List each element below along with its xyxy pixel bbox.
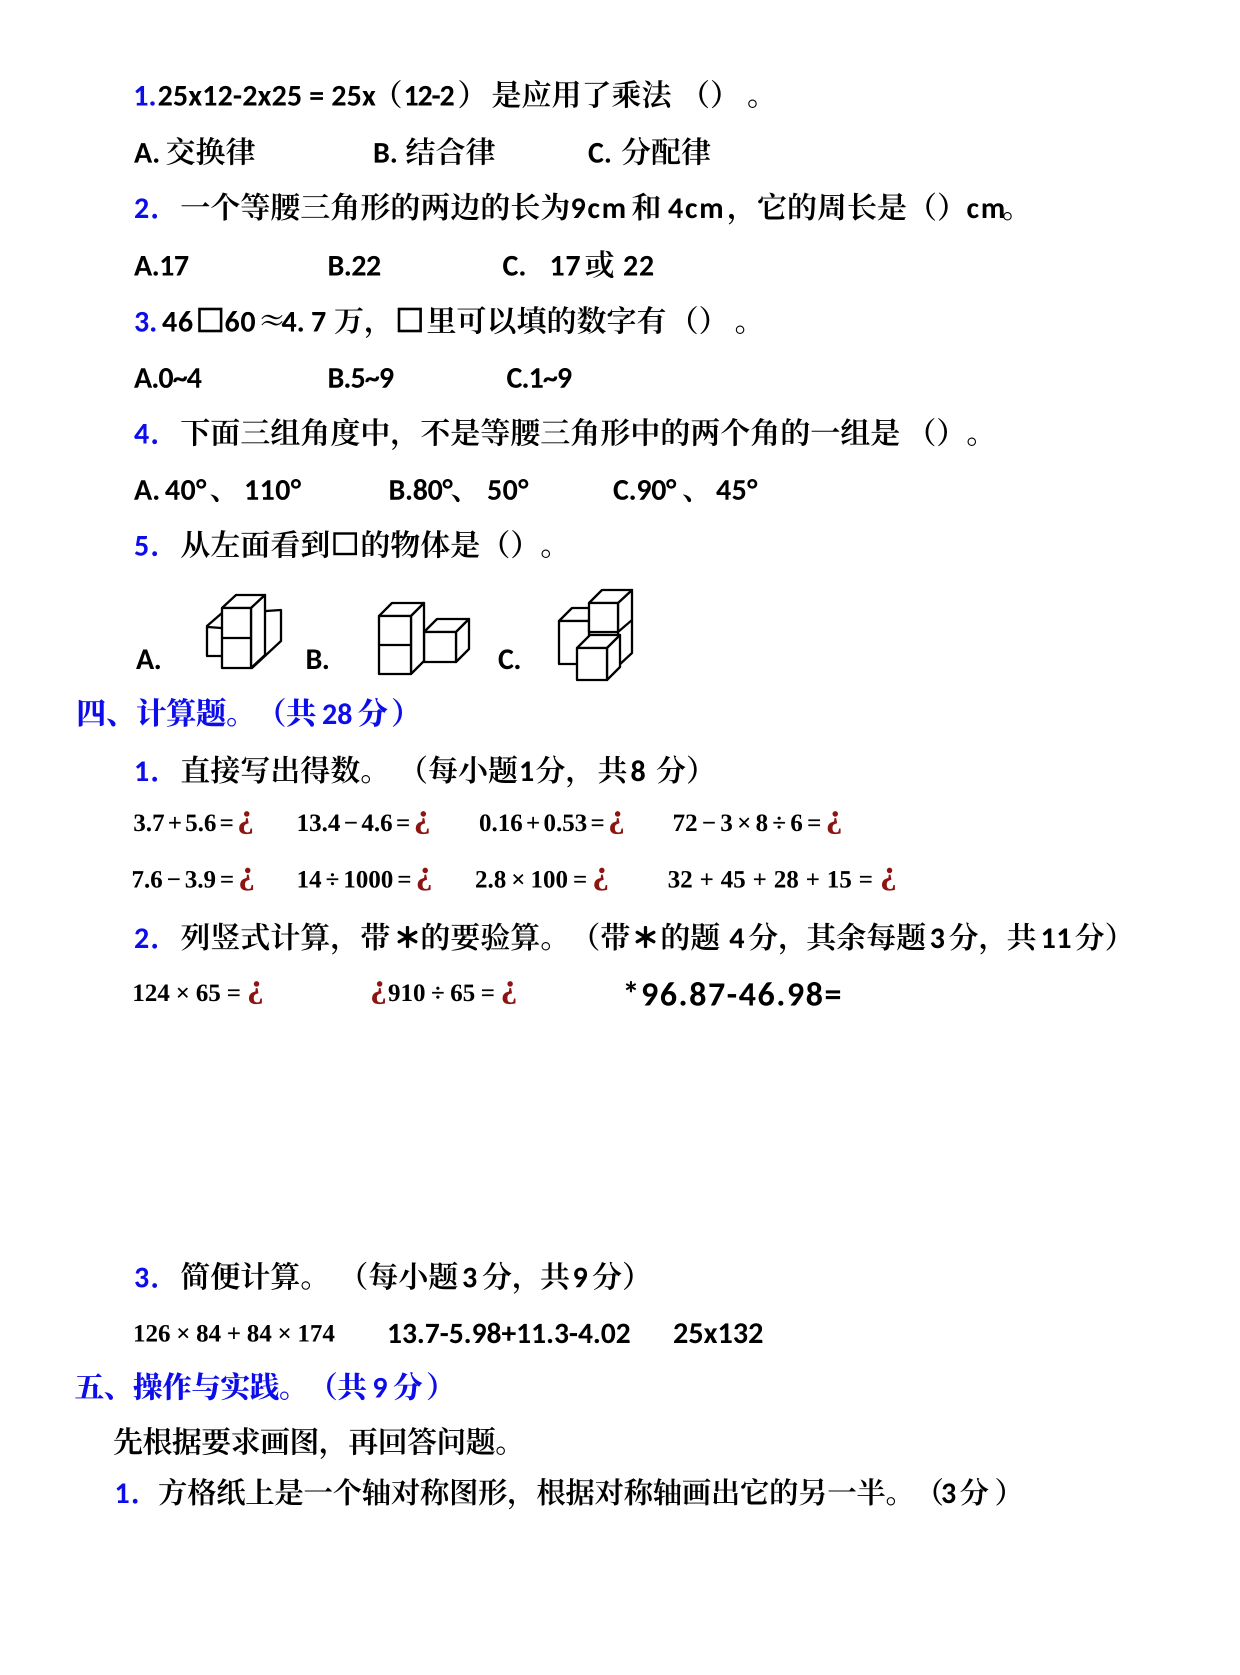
cube figure B bbox=[379, 603, 469, 674]
text content bbox=[135, 86, 147, 105]
cube figure A bbox=[207, 595, 281, 668]
cube figure C bbox=[559, 590, 632, 680]
